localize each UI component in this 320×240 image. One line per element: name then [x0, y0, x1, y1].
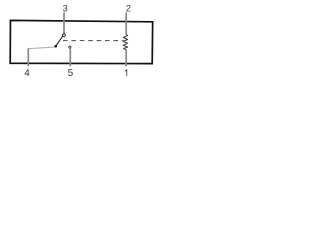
- pin 2 lead: [125, 12, 127, 34]
- pin 2 label: [126, 5, 130, 11]
- pin 4 wire: [28, 47, 55, 49]
- pin 1 lead: [125, 50, 127, 67]
- pin 1 label: [125, 69, 127, 76]
- mechanical linkage (dashed): [63, 40, 123, 42]
- switch pivot: [54, 45, 57, 48]
- switch contact (pin 5): [69, 46, 71, 48]
- pin 5 label: [68, 69, 73, 76]
- pin 3 label: [63, 5, 67, 12]
- pin 4 label: [25, 69, 30, 76]
- switch arm: [56, 36, 63, 46]
- switch contact stub (pin 5): [69, 41, 71, 44]
- switch fixed contact (pin 3): [63, 34, 66, 37]
- pin 4 lead: [27, 48, 29, 66]
- pin 5 lead: [69, 48, 71, 66]
- relay body outline: [10, 20, 152, 63]
- relay coil L1: [123, 34, 127, 49]
- pin 3 lead: [63, 12, 65, 34]
